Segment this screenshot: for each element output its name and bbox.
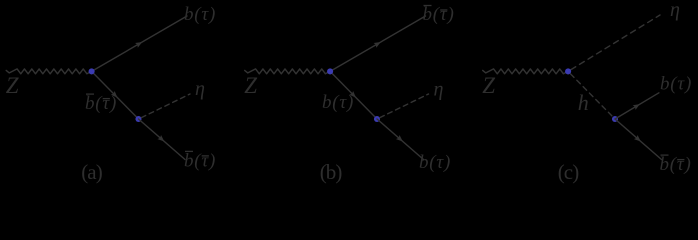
arrow on upper line (a) (135, 40, 144, 48)
wire internal bbar line (a) (92, 71, 139, 119)
vertex 1 (b) (327, 68, 333, 74)
wire bbar lower line (c) (615, 119, 662, 160)
svg-text:(a): (a) (81, 160, 103, 184)
svg-text:Z: Z (244, 73, 257, 98)
svg-text:h: h (578, 90, 589, 115)
svg-text:b(τ): b(τ) (184, 150, 216, 171)
dashed eta line (a) (139, 94, 191, 119)
svg-text:Z: Z (482, 73, 495, 98)
svg-text:b(τ): b(τ) (419, 152, 451, 173)
label bbar(taubar) top (b) (423, 4, 455, 25)
svg-text:b(τ): b(τ) (660, 154, 692, 175)
wire internal b line (b) (330, 71, 377, 119)
svg-text:b(τ): b(τ) (85, 93, 117, 114)
Z boson wavy line (c) (483, 69, 568, 74)
arrow on internal line (a) (111, 91, 120, 100)
svg-text:b(τ): b(τ) (322, 92, 354, 113)
svg-text:Z: Z (6, 73, 19, 98)
svg-text:b(τ): b(τ) (423, 4, 455, 25)
svg-text:η: η (434, 79, 444, 101)
svg-text:b(τ): b(τ) (184, 4, 216, 25)
wire b(tau) upper line (a) (92, 16, 187, 71)
arrow on lower line (b) (396, 135, 405, 143)
svg-text:η: η (670, 0, 680, 21)
wire bbar upper line (b) (330, 16, 425, 71)
dashed h line (c) (568, 71, 615, 119)
arrow on lower line (a) (157, 135, 166, 143)
wire b(tau) right line (c) (615, 93, 659, 119)
svg-text:(b): (b) (320, 160, 343, 184)
dashed eta line (c) (568, 15, 660, 71)
vertex 2 (b) (374, 116, 380, 122)
dashed eta line (b) (377, 94, 429, 119)
vertex 1 (c) (565, 68, 571, 74)
wire bbar lower line (a) (139, 119, 186, 160)
vertex 2 (c) (612, 116, 618, 122)
svg-text:(c): (c) (558, 160, 580, 184)
label bbar(taubar) bottom (a) (184, 150, 216, 171)
vertex 2 (a) (135, 116, 141, 122)
svg-text:b(τ): b(τ) (660, 74, 692, 95)
arrow on upper line (b) (374, 40, 383, 48)
arrow on lower line (c) (634, 135, 643, 143)
vertex 1 (a) (89, 68, 95, 74)
arrow on right line (c) (633, 102, 642, 110)
label bbar(taubar) bottom (c) (660, 154, 692, 175)
svg-text:η: η (195, 78, 205, 100)
arrow on internal line (b) (349, 91, 358, 100)
Z boson wavy line (b) (245, 69, 330, 74)
wire b lower line (b) (377, 119, 424, 160)
Z boson wavy line (a) (6, 69, 91, 74)
label bbar(taubar) middle (a) (85, 93, 117, 114)
